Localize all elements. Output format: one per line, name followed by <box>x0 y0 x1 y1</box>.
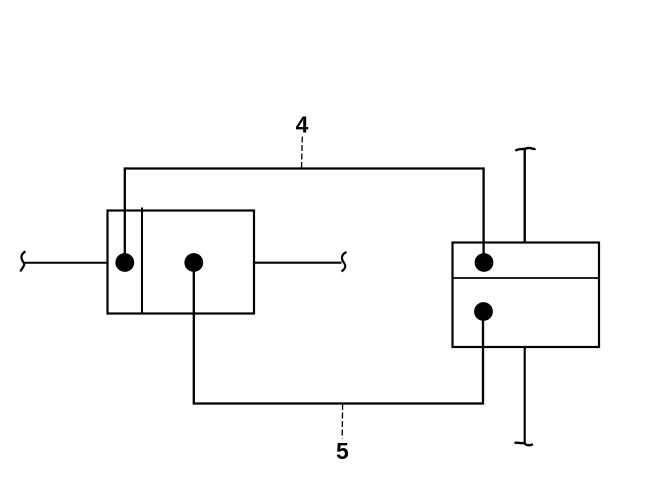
wire 4 run: valve dot A up, across, down to cylinder top port <box>125 169 484 263</box>
piston rod upper segment <box>524 150 526 243</box>
piston rod bottom end tick <box>515 443 534 446</box>
right lead break mark <box>342 252 347 272</box>
left lead wire <box>23 262 108 264</box>
cylinder bottom port dot <box>474 302 493 321</box>
valve body outer box <box>108 211 255 314</box>
cylinder piston divider <box>453 277 600 279</box>
valve port dot A <box>115 253 134 272</box>
piston rod lower segment <box>524 347 526 444</box>
valve port dot B <box>184 253 203 272</box>
cylinder body box <box>453 243 600 348</box>
piston rod top end tick <box>516 148 536 151</box>
label 5 leader line <box>341 404 343 439</box>
valve section divider <box>141 208 143 314</box>
label 4 leader line <box>301 137 304 169</box>
svg-text:5: 5 <box>336 438 349 464</box>
left lead break mark <box>21 252 26 272</box>
cylinder top port dot <box>475 253 494 272</box>
wire 5 run: valve dot B down, across, up to cylinder bottom port <box>194 262 483 404</box>
svg-text:4: 4 <box>296 112 309 138</box>
right lead wire <box>254 262 342 264</box>
